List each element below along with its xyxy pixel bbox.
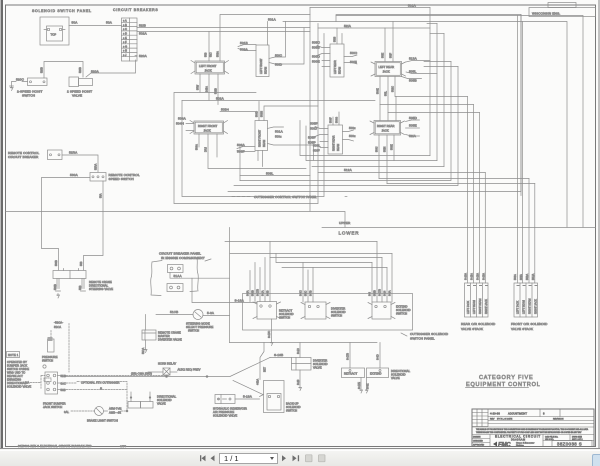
svg-text:LEFT FRONT: LEFT FRONT: [199, 64, 217, 68]
svg-text:AIR PRESSURE: AIR PRESSURE: [213, 410, 234, 414]
rear outrigger solenoid valve stack: [465, 283, 489, 317]
svg-text:RIGHT BEAM: RIGHT BEAM: [529, 298, 532, 314]
remote crane directional steering valve V3: [53, 269, 86, 279]
bottom-left microfilm text: [18, 445, 127, 448]
svg-text:RETRACT: RETRACT: [279, 309, 293, 313]
svg-text:REVSE ACT: REVSE ACT: [7, 374, 23, 378]
wire loop y180: [240, 62, 451, 181]
remote control speed switch S2: [90, 173, 106, 182]
svg-text:A5M-T-#2: A5M-T-#2: [109, 407, 122, 411]
steering mode select pressure switch S3: [193, 310, 203, 320]
engine breaker CB4: [167, 284, 183, 292]
svg-text:BRAKE LIGHT SWITCH: BRAKE LIGHT SWITCH: [87, 419, 118, 423]
directional solenoid valve V6 extend: [367, 368, 389, 378]
front outrigger solenoid valve stack: [514, 283, 538, 317]
svg-text:DIRECTIONAL: DIRECTIONAL: [391, 369, 411, 373]
wire riser x324: [323, 34, 325, 197]
svg-text:505E: 505E: [409, 124, 417, 128]
svg-text:OPTIONAL 5TH OUTRIGGER: OPTIONAL 5TH OUTRIGGER: [81, 381, 120, 385]
horn relay wires: [131, 368, 201, 376]
wire 52IA: [318, 24, 430, 28]
svg-text:505D: 505D: [409, 116, 418, 120]
wire row y112: [388, 112, 480, 114]
svg-text:0AL: 0AL: [64, 410, 69, 414]
drawing title text: [495, 435, 541, 442]
svg-text:8: 8: [543, 412, 545, 416]
svg-text:50IN: 50IN: [384, 147, 387, 152]
diverter solenoid switch label: [331, 307, 346, 318]
svg-text:DRJ: DRJ: [205, 146, 208, 152]
svg-text:504G: 504G: [336, 117, 339, 123]
svg-text:4-20-88: 4-20-88: [490, 412, 500, 416]
beam B4 left wires lower: [308, 136, 328, 148]
svg-text:502C: 502C: [392, 86, 395, 92]
svg-text:DIRECTIONAL: DIRECTIONAL: [89, 284, 109, 288]
svg-text:VALVE STACK: VALVE STACK: [461, 327, 484, 331]
wire SOB: [58, 388, 128, 392]
svg-text:501B: 501B: [240, 41, 248, 45]
wire riser x318: [317, 24, 319, 204]
svg-text:RIGHT BEAM: RIGHT BEAM: [479, 298, 482, 314]
svg-text:o G: o G: [123, 45, 127, 48]
svg-text:o D: o D: [123, 33, 127, 36]
svg-text:S-16B: S-16B: [274, 353, 283, 357]
rear stack label: [461, 322, 496, 331]
wire loop lower y253: [230, 253, 392, 255]
svg-text:SWITCH: SWITCH: [188, 329, 199, 333]
svg-text:513A: 513A: [409, 57, 418, 61]
wire row y178: [379, 178, 529, 180]
svg-text:BET: BET: [264, 367, 267, 372]
svg-text:505C: 505C: [312, 41, 321, 45]
revision band row: [488, 409, 594, 424]
svg-text:o E: o E: [123, 37, 127, 40]
svg-text:S-8A: S-8A: [389, 290, 392, 296]
front stack label: [511, 322, 548, 331]
wire riser x458: [424, 66, 458, 68]
wire label 512A: [344, 168, 353, 172]
svg-text:THEREON ARE THE CONFIDENTIAL P: THEREON ARE THE CONFIDENTIAL PROPERTY OF…: [476, 431, 582, 434]
svg-text:502A: 502A: [139, 32, 148, 36]
svg-text:503E: 503E: [391, 144, 394, 150]
wire loop y172 right: [208, 168, 306, 170]
svg-text:503A: 503A: [237, 143, 246, 147]
svg-text:SWITCH: SWITCH: [22, 94, 35, 98]
svg-text:EXTEND: EXTEND: [370, 372, 382, 376]
rear stack wire labels: [465, 273, 486, 280]
wire riser x444: [430, 34, 444, 167]
svg-text:50ID: 50ID: [310, 127, 318, 131]
remote control circuit breaker label: [8, 151, 39, 159]
beam B3 left wires: [312, 41, 330, 56]
svg-text:50A: 50A: [72, 21, 79, 25]
drawing number 38Z0038 S: [552, 441, 592, 447]
jack J4 feed wires: [380, 97, 396, 121]
left front beam B1: [256, 45, 269, 77]
wire riser x521 mid: [520, 15, 522, 196]
svg-text:S-17C: S-17C: [268, 331, 271, 338]
wire 530A: [42, 173, 91, 270]
svg-text:AUX2 REQ PREV: AUX2 REQ PREV: [178, 368, 201, 372]
wire bus y267: [282, 267, 387, 269]
beam B4 risers: [330, 112, 340, 125]
svg-text:DIAGRAM: DIAGRAM: [511, 439, 525, 442]
wire riser x437: [427, 24, 437, 161]
wire 51CA drop label: [51, 321, 63, 339]
beam B3 right wires: [344, 51, 358, 64]
2-speed hoist valve V1: [69, 77, 93, 87]
svg-text:50BA: 50BA: [526, 274, 529, 280]
wire S-20 drop: [297, 343, 302, 391]
svg-text:DRAWN: DRAWN: [473, 436, 481, 439]
left rear beam B3: [330, 44, 344, 77]
junction circle: [43, 365, 46, 368]
pressure switch label: [42, 355, 58, 363]
svg-text:SOLENOID: SOLENOID: [396, 308, 411, 312]
svg-text:S-8B: S-8B: [267, 290, 270, 296]
retract solenoid switch S7: [253, 302, 281, 320]
beam B2 risers: [256, 102, 319, 167]
svg-text:CIRCUIT BREAKER PANEL: CIRCUIT BREAKER PANEL: [159, 252, 201, 256]
wire 513A: [406, 57, 430, 63]
svg-text:EQUIPMENT CONTROL: EQUIPMENT CONTROL: [466, 382, 541, 388]
svg-text:503F: 503F: [237, 150, 245, 154]
svg-text:(251-CMA 2WD): (251-CMA 2WD): [131, 372, 152, 376]
svg-text:FRONT O/R SOLENOID: FRONT O/R SOLENOID: [511, 322, 548, 326]
wire 502A from breakers: [137, 32, 310, 36]
svg-text:DIRECTIONAL: DIRECTIONAL: [7, 381, 27, 385]
svg-text:JACK: JACK: [383, 70, 390, 74]
svg-text:5-0A: 5-0A: [207, 311, 215, 315]
svg-text:LEFT REAR: LEFT REAR: [334, 60, 337, 74]
svg-text:S-10A: S-10A: [465, 273, 468, 280]
right front beam B2: [255, 121, 268, 151]
svg-text:S-8A: S-8A: [247, 290, 250, 296]
svg-text:IN ENGINE COMPARTMENT: IN ENGINE COMPARTMENT: [161, 256, 205, 260]
wire loop left vertical: [174, 93, 256, 204]
svg-text:o F: o F: [123, 41, 127, 44]
wire loop y166 right: [312, 166, 444, 168]
svg-text:APPROVED: APPROVED: [473, 444, 485, 447]
svg-text:50B: 50B: [61, 388, 66, 392]
directional solenoid valve V6 retract: [342, 368, 365, 378]
wire 508A into beam: [238, 48, 256, 52]
svg-text:508B: 508B: [252, 290, 255, 296]
svg-text:SWITCH: SWITCH: [331, 314, 342, 318]
svg-text:50Iu: 50Iu: [275, 135, 282, 139]
jack J4 bottom wires: [376, 135, 395, 184]
jack J2 feed labels: [176, 117, 194, 131]
svg-text:50IO: 50IO: [350, 51, 358, 55]
remote crane master diverter valve label: [158, 331, 182, 342]
svg-text:SOLENOID VALVE: SOLENOID VALVE: [213, 414, 237, 418]
wire 501A beam right: [268, 127, 284, 139]
svg-text:SOLENOID: SOLENOID: [157, 398, 172, 402]
svg-text:OPERATED BY: OPERATED BY: [7, 360, 27, 364]
wire S-19A: [235, 395, 260, 400]
svg-text:WISCONSIN ENG.: WISCONSIN ENG.: [532, 12, 560, 16]
node riser x310: [309, 8, 311, 212]
svg-text:JACK: JACK: [382, 129, 389, 133]
svg-text:AMB—#2: AMB—#2: [109, 411, 122, 415]
front bumper jack switch S5: [44, 372, 58, 394]
svg-text:BY R L S DATE: BY R L S DATE: [497, 418, 513, 421]
svg-text:RIGHT FRONT: RIGHT FRONT: [259, 129, 262, 147]
svg-text:S-8D: S-8D: [377, 354, 380, 360]
svg-text:50IL: 50IL: [385, 91, 388, 96]
svg-text:50IF: 50IF: [390, 53, 393, 58]
svg-text:SWITCH OVRDE: SWITCH OVRDE: [7, 367, 29, 371]
wire row y183: [387, 183, 535, 185]
svg-text:50IS: 50IS: [334, 37, 337, 42]
svg-text:S-1C: S-1C: [297, 348, 300, 354]
svg-text:S-17B: S-17B: [379, 289, 382, 296]
FMC logo: [493, 442, 535, 449]
svg-text:HYDRAULIC RESERVOIR: HYDRAULIC RESERVOIR: [213, 407, 247, 411]
svg-text:50B: 50B: [205, 52, 208, 57]
svg-text:44BA: 44BA: [257, 379, 260, 385]
steering valve solenoid hatch right: [79, 279, 86, 292]
svg-text:505F: 505F: [310, 122, 318, 126]
svg-text:502A: 502A: [216, 97, 225, 101]
svg-text:50IE: 50IE: [382, 53, 385, 58]
wire loop lower y241: [225, 241, 377, 243]
wire 503A: [237, 143, 255, 149]
beam B3 left wires lower: [312, 55, 330, 67]
wire loop y203: [174, 203, 318, 205]
diverter solenoid valve V5: [292, 358, 312, 371]
svg-text:VALVE: VALVE: [313, 366, 322, 370]
svg-text:CATEGORY FIVE: CATEGORY FIVE: [479, 375, 533, 381]
wire MA left: [25, 376, 45, 390]
svg-text:508A: 508A: [240, 48, 249, 52]
svg-text:S-17B: S-17B: [257, 289, 260, 296]
wire riser x229: [229, 228, 231, 343]
lower chassis divider: [322, 227, 596, 229]
svg-text:S-17B: S-17B: [347, 353, 350, 360]
back-up solenoid switch label: [286, 402, 301, 413]
svg-text:504A: 504A: [178, 117, 187, 121]
signature column: [472, 435, 543, 447]
beam B1 top riser: [267, 22, 269, 46]
svg-text:LEFT JACK: LEFT JACK: [517, 301, 520, 314]
svg-text:o C: o C: [123, 28, 127, 31]
retract solenoid switch label: [279, 309, 294, 320]
wire breaker to retract switch: [192, 278, 257, 302]
remote crane master diverter valve V2: [142, 330, 156, 340]
svg-text:REAR O/R SOLENOID: REAR O/R SOLENOID: [461, 322, 496, 326]
right front jack J2: [190, 121, 228, 135]
svg-text:500D: 500D: [312, 55, 321, 59]
svg-text:500E: 500E: [312, 60, 320, 64]
svg-text:CIRCUIT BREAKERS: CIRCUIT BREAKERS: [113, 8, 158, 12]
optional 5th outrigger dashed box: [77, 381, 127, 391]
brake light switch label: [87, 419, 118, 423]
wire riser x430: [429, 8, 431, 156]
jack J1 lower wires: [197, 74, 219, 105]
svg-text:SOLENOID SWITCH PANEL: SOLENOID SWITCH PANEL: [32, 9, 92, 13]
svg-text:504E: 504E: [377, 88, 380, 94]
svg-text:SWITCH: SWITCH: [42, 359, 53, 363]
front stack riser 3: [528, 179, 530, 284]
revision grid: [472, 409, 488, 427]
svg-text:SWITCH: SWITCH: [279, 316, 290, 320]
jack J2 lower wires: [196, 134, 218, 168]
svg-text:ADJUSTMENT: ADJUSTMENT: [508, 412, 527, 416]
jack J3 feed wires: [382, 22, 394, 62]
wire 50B4: [220, 108, 255, 112]
svg-text:51C: 51C: [210, 52, 213, 57]
svg-text:53B: 53B: [80, 261, 83, 266]
svg-text:504D: 504D: [256, 111, 259, 117]
svg-text:THE ANGLE OF PROJECTION IS THE: THE ANGLE OF PROJECTION IS THE CONVENTIO…: [476, 428, 589, 431]
wire 52IA lower: [406, 134, 420, 138]
svg-text:JACK: JACK: [204, 129, 211, 133]
wire 520B hoist loop: [41, 62, 84, 79]
svg-text:51CA: 51CA: [54, 325, 61, 329]
svg-text:508L: 508L: [266, 172, 274, 176]
svg-text:51CA: 51CA: [142, 347, 145, 354]
brake light wires: [64, 407, 127, 415]
svg-text:HORN RELAY: HORN RELAY: [158, 362, 176, 366]
svg-text:520C: 520C: [16, 78, 25, 82]
remote crane steering valve label: [89, 280, 113, 291]
wire 51AA: [170, 273, 230, 279]
svg-text:50Iu: 50Iu: [349, 126, 356, 130]
svg-text:50IC: 50IC: [275, 54, 283, 58]
svg-text:DIRECTIONAL: DIRECTIONAL: [157, 395, 177, 399]
svg-text:504F: 504F: [330, 117, 333, 123]
pressure switch S4: [48, 337, 55, 352]
wire 505D: [406, 116, 420, 122]
svg-text:503H: 503H: [261, 111, 264, 117]
directional solenoid valve small V4: [128, 392, 153, 408]
extend solenoid switch label: [396, 305, 411, 316]
svg-text:38Z0038 S: 38Z0038 S: [557, 442, 582, 447]
svg-text:509A: 509A: [217, 51, 220, 57]
svg-text:51CB: 51CB: [170, 310, 178, 314]
wire 520A to valve: [86, 60, 136, 77]
svg-text:SWITCH: SWITCH: [396, 312, 407, 316]
extend switch feed wires: [369, 242, 393, 303]
diverter solenoid switch S8: [301, 302, 330, 319]
svg-text:S-16A: S-16A: [235, 299, 245, 303]
svg-text:SOLENOID: SOLENOID: [313, 362, 328, 366]
directional solenoid valve small label: [157, 395, 177, 406]
svg-text:BEAM: BEAM: [337, 144, 340, 151]
wire 51CA valve drop: [142, 315, 147, 355]
wire 503F: [237, 150, 255, 154]
svg-text:50W: 50W: [197, 84, 200, 90]
svg-text:BEAM: BEAM: [339, 67, 342, 74]
diverter switch feed wires: [300, 263, 314, 303]
svg-text:STEERING MODE: STEERING MODE: [186, 322, 210, 326]
svg-text:50IE: 50IE: [350, 60, 357, 64]
svg-text:OUTRIGGER SOLENOID: OUTRIGGER SOLENOID: [410, 332, 449, 336]
wire riser x451: [424, 61, 451, 63]
wire diag to backup switch: [233, 381, 263, 395]
steering valve solenoid hatch left: [54, 279, 61, 299]
svg-text:SOLENOID: SOLENOID: [391, 373, 406, 377]
directional valve feed S-17B: [347, 343, 351, 369]
right rear beam B4: [328, 125, 343, 154]
remote control circuit breaker CB2: [48, 150, 63, 160]
svg-text:WRG USD TO: WRG USD TO: [7, 371, 25, 375]
svg-text:RIGHT REAR: RIGHT REAR: [377, 124, 395, 128]
svg-text:504J: 504J: [376, 146, 379, 152]
svg-text:RETRACT: RETRACT: [344, 372, 358, 376]
wire loop y185: [234, 67, 458, 186]
svg-text:R: R: [100, 387, 102, 391]
svg-text:SOLENOID: SOLENOID: [279, 312, 294, 316]
front bumper jack switch label: [43, 402, 66, 410]
2-speed hoist switch label: [17, 90, 43, 98]
svg-text:S-8E: S-8E: [367, 383, 370, 389]
svg-text:S-1A: S-1A: [262, 290, 265, 296]
wire 52RA: [62, 151, 98, 173]
svg-text:SELECT PRESSURE: SELECT PRESSURE: [186, 325, 214, 329]
jack J3 bottom wires: [377, 77, 396, 113]
svg-text:520B: 520B: [79, 67, 82, 73]
svg-text:51AA: 51AA: [174, 274, 183, 278]
cad file cells: [543, 435, 594, 442]
svg-text:141A: 141A: [206, 86, 209, 92]
svg-text:SWITCH: SWITCH: [286, 409, 297, 413]
svg-text:530B: 530B: [54, 284, 57, 290]
svg-text:5HB: 5HB: [61, 374, 67, 378]
svg-text:501A: 501A: [268, 18, 277, 22]
svg-text:LEFT JACK: LEFT JACK: [467, 301, 470, 314]
2-speed hoist switch S1: [28, 78, 48, 86]
directional valve feed S-8D: [377, 343, 381, 369]
front stack riser 4: [534, 184, 536, 284]
svg-text:S-11A: S-11A: [471, 273, 474, 280]
beam B4 left wires: [310, 122, 328, 137]
wire 53A: [80, 181, 103, 270]
svg-text:52IA: 52IA: [409, 134, 417, 138]
svg-text:53B: 53B: [79, 285, 82, 290]
rear stack riser B: [473, 105, 475, 284]
brake light switch S6: [95, 407, 104, 416]
svg-text:LEFT REAR: LEFT REAR: [379, 65, 395, 69]
note 1 block: [7, 352, 32, 389]
svg-text:STEERING VALVE: STEERING VALVE: [89, 287, 113, 291]
wire OAC: [58, 382, 78, 386]
svg-text:NOTE 1: NOTE 1: [8, 353, 19, 357]
svg-text:53A: 53A: [100, 193, 103, 198]
wire 50A panel to breakers: [69, 21, 122, 26]
svg-text:504H: 504H: [176, 122, 184, 126]
steering mode label: [186, 322, 214, 333]
svg-text:BUMPER JACK: BUMPER JACK: [7, 364, 27, 368]
svg-text:505L: 505L: [409, 70, 417, 74]
svg-text:LEFT BEAM: LEFT BEAM: [473, 300, 476, 314]
wire loop y160 right: [306, 126, 437, 161]
wire 520A from breakers: [135, 54, 148, 58]
jack J1 feed wires: [205, 15, 311, 62]
wire loop outer right: [336, 16, 583, 228]
svg-text:REMOTE CRANE: REMOTE CRANE: [158, 331, 181, 335]
wire row y104: [380, 104, 474, 106]
wire row y172: [318, 172, 485, 174]
wire 501B into beam: [238, 41, 256, 47]
svg-text:VALVE: VALVE: [157, 402, 166, 406]
svg-text:50ID: 50ID: [275, 63, 283, 67]
svg-text:S-8C: S-8C: [300, 290, 303, 296]
svg-text:S-12A: S-12A: [477, 273, 480, 280]
wire S-16B: [268, 319, 292, 358]
wire 520C with ground arrow: [10, 78, 28, 91]
